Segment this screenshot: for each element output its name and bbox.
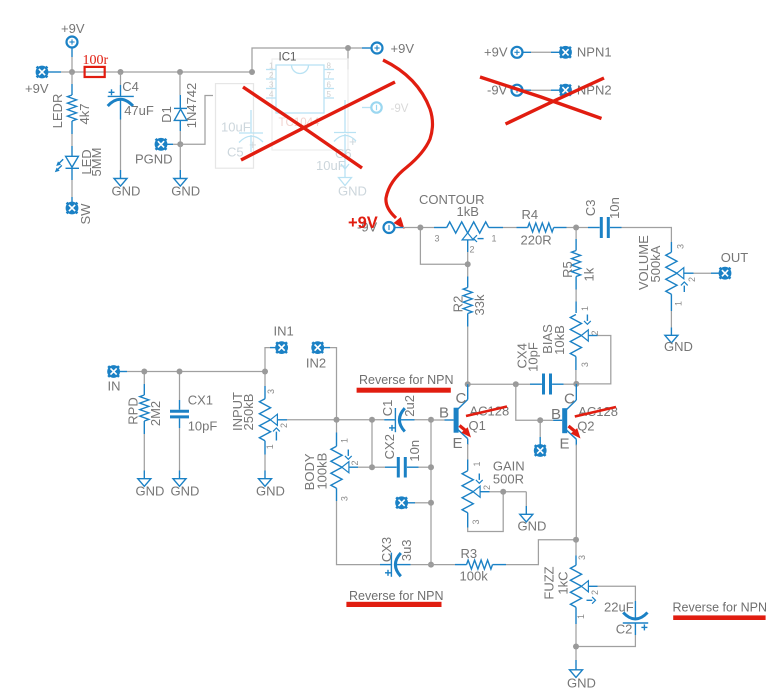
pad +9V [25, 66, 49, 96]
svg-text:C2: C2 [616, 622, 633, 637]
svg-text:47uF: 47uF [124, 103, 154, 118]
svg-text:10kB: 10kB [552, 325, 567, 355]
annotation red X over IC1 [241, 82, 395, 168]
pad (Q2 base node) [534, 420, 547, 457]
wire LEDR to LED [71, 134, 73, 146]
svg-text:R4: R4 [522, 207, 539, 222]
node junctions transistor area [500, 417, 543, 494]
capacitor CX1 10pF [170, 372, 217, 434]
svg-text:100kB: 100kB [315, 453, 330, 490]
svg-text:+9V: +9V [391, 41, 415, 56]
svg-text:1: 1 [339, 438, 349, 443]
op-amp IC1 ghost body (charge pump) [266, 65, 334, 113]
svg-text:+9V: +9V [61, 21, 85, 36]
wire BODY wiper to CX2 rail [358, 466, 372, 468]
svg-text:1: 1 [673, 301, 683, 306]
svg-text:3: 3 [266, 389, 276, 394]
LED 5MM [55, 146, 104, 180]
svg-text:2: 2 [590, 330, 600, 335]
svg-text:C1: C1 [380, 400, 395, 417]
pad OUT [719, 250, 749, 280]
ghost selection box IC1 [272, 59, 348, 150]
svg-text:10uF: 10uF [221, 120, 251, 135]
svg-text:GND: GND [171, 484, 200, 499]
node junctions mid [417, 225, 579, 388]
svg-text:R2: R2 [450, 296, 465, 313]
node junctions input rows [141, 369, 434, 568]
svg-text:PGND: PGND [135, 152, 173, 167]
svg-text:CX1: CX1 [188, 393, 213, 408]
wire to ghost IC pin 8 [347, 48, 349, 70]
wire Q1 emitter to GAIN [467, 444, 469, 460]
node junctions bottom [573, 537, 579, 650]
pad IN1 [274, 324, 294, 355]
svg-text:C: C [456, 390, 467, 407]
svg-text:Reverse for NPN: Reverse for NPN [349, 589, 443, 603]
transistor Q2 AC128 [540, 384, 618, 453]
svg-text:1: 1 [269, 62, 274, 71]
svg-text:+9V: +9V [25, 81, 49, 96]
wire CX4 left leg to Q2 base [516, 384, 540, 420]
svg-text:SW: SW [78, 203, 93, 225]
wire GAIN pin3 loop [468, 492, 504, 532]
svg-text:1kB: 1kB [457, 204, 479, 219]
svg-text:3: 3 [577, 555, 587, 560]
wire base rail to C1 [337, 419, 385, 421]
wire CX1 to GND [179, 428, 181, 479]
wire INPUT to GND [264, 455, 266, 479]
svg-text:C4: C4 [122, 79, 139, 94]
svg-text:1: 1 [576, 614, 586, 619]
svg-text:LEDR: LEDR [50, 94, 65, 129]
wire R3 to FUZZ node [506, 540, 576, 565]
svg-text:GND: GND [171, 184, 200, 199]
svg-text:CX3: CX3 [379, 537, 394, 562]
capacitor CX3 3u3 [379, 537, 431, 577]
svg-text:100r: 100r [83, 53, 109, 68]
svg-text:2: 2 [482, 485, 492, 490]
svg-text:OUT: OUT [721, 250, 749, 265]
node PGND junction [177, 141, 183, 147]
potentiometer INPUT 250kB [230, 372, 289, 455]
svg-text:C: C [564, 391, 575, 408]
supply -9V ghost [362, 102, 409, 115]
svg-text:R3: R3 [461, 546, 478, 561]
wire +9V rail [72, 71, 252, 73]
diode D1 1N4742 [159, 72, 199, 131]
wire FUZZ pin1 to node [575, 624, 577, 647]
ground GND (GAIN) [518, 514, 547, 533]
wire C3 to VOLUME [622, 228, 672, 243]
svg-text:+9V: +9V [484, 45, 508, 60]
wire supply to CONTOUR [394, 227, 420, 229]
svg-text:1N4742: 1N4742 [184, 83, 199, 129]
annotation Reverse for NPN (3) [673, 601, 767, 621]
wire VOLUME wiper to OUT [694, 272, 720, 274]
pad SW [66, 202, 93, 225]
resistor R4 220R [503, 207, 576, 248]
wire INPUT wiper to base rail [287, 419, 337, 421]
wire +9V to NPN1 [522, 51, 559, 53]
svg-text:FUZZ: FUZZ [541, 566, 556, 599]
supply +9V (NPN1 row) [484, 45, 523, 60]
wire IN1 to input node [265, 348, 276, 372]
wire LED to SW pad [71, 180, 73, 202]
ground GND (D1) [171, 179, 200, 199]
wire C4 to GND [120, 120, 122, 179]
svg-text:IC1: IC1 [279, 52, 297, 64]
svg-text:+: + [349, 134, 357, 149]
svg-text:Reverse for NPN: Reverse for NPN [359, 373, 453, 387]
annotation red arrow emitter Q2 [569, 426, 581, 439]
wire IN2 to base rail [324, 348, 337, 420]
resistor R3 100k [431, 546, 506, 584]
svg-text:5: 5 [327, 90, 332, 99]
svg-text:D1: D1 [159, 106, 174, 123]
svg-text:6: 6 [327, 81, 332, 90]
svg-text:CX2: CX2 [382, 434, 397, 459]
annotation red arrow emitter Q1 [460, 426, 472, 438]
svg-text:RPD: RPD [125, 397, 140, 424]
svg-text:GND: GND [136, 484, 165, 499]
capacitor C5 ghost [221, 110, 263, 160]
pad NPN1 [559, 45, 611, 60]
svg-text:C3: C3 [583, 199, 598, 216]
ground GND (FUZZ) [567, 670, 596, 691]
svg-text:250kB: 250kB [241, 394, 256, 431]
pad IN [107, 365, 120, 393]
svg-text:22uF: 22uF [604, 600, 634, 615]
svg-text:B: B [551, 406, 561, 423]
wire PGND node to ghost IC [180, 96, 213, 145]
transistor Q1 AC128 [431, 384, 509, 452]
wire BODY pin3 down to CX3 [337, 501, 381, 565]
svg-text:2u2: 2u2 [402, 395, 417, 417]
svg-text:2: 2 [470, 245, 475, 255]
supply +9V (top left) [61, 21, 85, 48]
svg-text:10n: 10n [607, 197, 622, 219]
svg-text:IN2: IN2 [306, 356, 326, 371]
wire BIAS pin3 to node [575, 370, 577, 384]
svg-text:2: 2 [279, 423, 289, 428]
svg-text:Q2: Q2 [577, 419, 594, 434]
svg-text:GND: GND [256, 484, 285, 499]
svg-text:1: 1 [472, 461, 482, 466]
ground GND ghost (C6) [338, 148, 367, 199]
pin numbers ghost 1-8 [269, 62, 331, 100]
supply -9V node (now +9V) [384, 222, 395, 233]
capacitor C1 2u2 [380, 395, 431, 432]
wire R5 to BIAS [575, 290, 577, 314]
capacitor C3 10n [576, 197, 622, 238]
svg-text:+9V: +9V [348, 214, 378, 232]
resistor RPD 2M2 [125, 372, 163, 435]
svg-text:IN1: IN1 [274, 324, 294, 339]
wire BIAS wiper loop [576, 336, 611, 384]
supply +9V (IC row) [348, 41, 414, 56]
wire rail up to IC row [252, 48, 348, 72]
svg-text:GND: GND [112, 184, 141, 199]
wire RPD to GND [143, 434, 145, 479]
svg-text:3: 3 [675, 244, 685, 249]
wire GAIN node to GND [525, 492, 527, 515]
svg-text:3u3: 3u3 [399, 539, 414, 561]
annotation strike AC128 (Q2) [575, 407, 616, 417]
capacitor C6 ghost [316, 100, 357, 173]
svg-text:Q1: Q1 [469, 418, 486, 433]
svg-text:E: E [560, 436, 570, 453]
resistor R5 1k [560, 228, 597, 290]
annotation red X over NPN2 [480, 77, 604, 124]
resistor 100r (red annotation) [83, 53, 109, 77]
svg-text:C5: C5 [227, 145, 244, 160]
pad IN2 [306, 341, 326, 370]
ghost selection box C5 [216, 84, 254, 169]
ground GND (CX1) [171, 479, 200, 499]
potentiometer FUZZ 1kC [541, 540, 600, 624]
svg-text:100k: 100k [460, 569, 489, 584]
svg-text:5MM: 5MM [89, 148, 104, 177]
svg-text:10n: 10n [407, 440, 422, 462]
potentiometer BIAS 10kB [540, 306, 600, 370]
svg-text:2: 2 [350, 460, 360, 465]
wire supply to rail [71, 47, 73, 72]
pad PGND [135, 138, 180, 167]
wire VOLUME to GND [670, 311, 672, 335]
svg-text:4: 4 [269, 90, 274, 99]
svg-text:8: 8 [327, 62, 332, 71]
svg-text:10uF: 10uF [316, 158, 346, 173]
resistor LEDR 4k7 [50, 72, 92, 134]
ground GND (INPUT) [256, 479, 285, 499]
pad NPN2 [559, 83, 611, 98]
svg-text:1k: 1k [581, 267, 596, 281]
svg-text:500kA: 500kA [648, 245, 663, 282]
svg-text:E: E [453, 435, 463, 452]
wire collector rail [468, 383, 530, 385]
svg-text:10pF: 10pF [188, 418, 218, 433]
svg-text:3: 3 [580, 362, 590, 367]
capacitor CX4 10pF [515, 342, 577, 394]
svg-text:GND: GND [664, 339, 693, 354]
svg-text:4k7: 4k7 [77, 104, 92, 125]
svg-text:GND: GND [518, 519, 547, 534]
potentiometer CONTOUR 1kB [419, 192, 503, 255]
svg-text:-9V: -9V [391, 103, 409, 115]
ground GND (C4) [112, 179, 141, 199]
wire -9V to NPN2 [522, 89, 559, 91]
annotation strike AC128 (Q1) [466, 407, 507, 417]
wire IN rail [120, 371, 265, 373]
svg-text:NPN2: NPN2 [577, 83, 612, 98]
potentiometer VOLUME 500kA [636, 235, 697, 311]
wire GAIN wiper node [490, 491, 527, 493]
svg-text:1: 1 [580, 306, 590, 311]
potentiometer GAIN 500R [462, 459, 525, 528]
svg-text:B: B [439, 405, 449, 422]
svg-text:GND: GND [567, 676, 596, 691]
capacitor C4 47uF [108, 72, 154, 120]
wire FUZZ wiper to C2 [598, 586, 636, 601]
potentiometer BODY 100kB [302, 420, 360, 501]
wire node to GND [575, 647, 577, 670]
annotation Reverse for NPN (1) [357, 373, 454, 393]
pad (node) [395, 496, 431, 509]
svg-text:1kC: 1kC [555, 571, 570, 594]
capacitor C2 22uF [604, 600, 648, 637]
svg-text:500R: 500R [493, 472, 524, 487]
annotation Reverse for NPN (2) [346, 589, 443, 607]
svg-text:220R: 220R [521, 233, 552, 248]
svg-text:10pF: 10pF [526, 342, 541, 372]
ground GND (VOLUME) [664, 335, 693, 354]
capacitor CX2 10n [372, 434, 431, 477]
wire D1 to PGND node [179, 131, 181, 144]
wire C2 to FUZZ bottom node [576, 635, 635, 647]
wire pad to rail [48, 71, 72, 73]
svg-text:1: 1 [265, 444, 275, 449]
svg-text:R5: R5 [560, 261, 575, 278]
wire Q2 emitter down [575, 445, 577, 540]
node junctions top rail [69, 45, 351, 75]
wire right column C1/CX2/pad/CX3 [430, 420, 432, 565]
svg-text:2: 2 [269, 71, 274, 80]
resistor R2 33k [450, 264, 487, 326]
svg-text:3: 3 [471, 519, 481, 524]
svg-text:2: 2 [590, 590, 600, 595]
svg-text:Reverse for NPN: Reverse for NPN [673, 601, 767, 615]
svg-text:3: 3 [269, 81, 274, 90]
svg-text:3: 3 [339, 496, 349, 501]
wire CONTOUR pin3 loop to wiper [420, 228, 467, 265]
wire C1/CX2 parallel left leg [371, 420, 373, 467]
svg-text:2M2: 2M2 [148, 401, 163, 426]
svg-text:GND: GND [338, 184, 367, 199]
ground GND (RPD) [136, 479, 165, 499]
svg-text:7: 7 [327, 71, 332, 80]
supply -9V (NPN2 row) [487, 83, 523, 98]
svg-text:33k: 33k [472, 294, 487, 315]
svg-text:+: + [249, 137, 257, 152]
wire PGND node to GND [179, 144, 181, 178]
svg-text:1: 1 [492, 234, 497, 244]
wire R2 to collector rail [467, 327, 469, 385]
svg-text:3: 3 [435, 234, 440, 244]
svg-text:NPN1: NPN1 [577, 45, 612, 60]
svg-text:2: 2 [687, 277, 697, 282]
svg-text:IN: IN [108, 379, 121, 394]
annotation red arrow +9V reroute [383, 60, 433, 229]
